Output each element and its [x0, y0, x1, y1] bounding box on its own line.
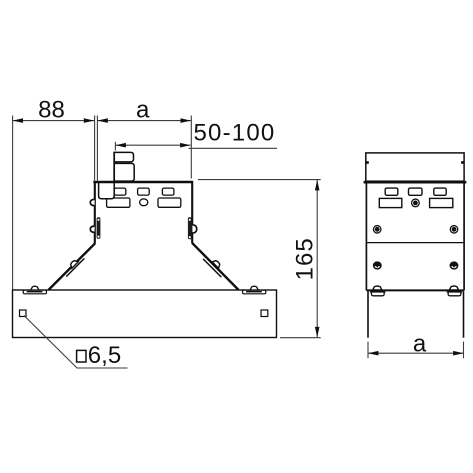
- center hole ellipse: [140, 199, 148, 206]
- left arm hinge strip: [66, 258, 84, 276]
- slot row1 right: [162, 188, 174, 195]
- side view foot tab right: [447, 286, 463, 296]
- dimension 88: left extension line: [12, 116, 14, 290]
- square hole left 6,5: [20, 310, 27, 317]
- side view slot row2 left: [379, 198, 402, 207]
- left arm hinge dome: [69, 259, 78, 268]
- side view slot row2 right: [430, 198, 453, 207]
- right edge knuckle bump: [192, 225, 196, 233]
- side view top box: [366, 153, 464, 181]
- left edge knuckle bump upper: [90, 199, 94, 205]
- dimension 88: dimension line: [13, 120, 95, 122]
- dimension a (side view): right extension tick: [463, 342, 465, 359]
- center clip left bar: [113, 152, 115, 182]
- right foot tab: [243, 286, 266, 294]
- side view rivet left: [373, 225, 382, 234]
- dimension 50-100: dimension line: [116, 144, 191, 146]
- dimension 165: bottom extension line: [280, 337, 321, 339]
- right arm hinge dome: [212, 259, 221, 268]
- side view slot row1 left: [385, 188, 398, 195]
- dimension a: left extension line: [96, 116, 98, 181]
- center clip upper segment: [114, 152, 133, 162]
- side view foot tab left: [370, 286, 386, 296]
- dimension 165: top extension line: [198, 179, 321, 181]
- body left edge: [94, 181, 96, 244]
- slot row1 center: [138, 188, 150, 195]
- side view center screw ring: [411, 198, 420, 207]
- square hole right 6,5: [261, 310, 268, 317]
- svg-text:6,5: 6,5: [88, 342, 121, 369]
- body right edge: [191, 181, 193, 243]
- base plate: [13, 290, 277, 338]
- dimension 50-100: reference shelf line: [189, 147, 278, 149]
- side view body right edge: [463, 183, 465, 290]
- left angled arm: [49, 243, 96, 290]
- dimension 165: arrows: [315, 180, 320, 337]
- side view top box left nub: [365, 161, 368, 164]
- left foot tab: [23, 286, 46, 294]
- side view bottom divider thick line: [366, 289, 464, 291]
- dimension a (front view): dimension line: [97, 120, 190, 122]
- side view dome rivet right: [450, 262, 458, 269]
- side view top box right nub: [461, 161, 464, 164]
- label square symbol: [77, 350, 86, 362]
- side view dome rivet left: [373, 262, 381, 269]
- svg-text:165: 165: [291, 237, 318, 280]
- left hanging hook: [99, 182, 115, 199]
- dimension a: right extension line: [190, 116, 192, 179]
- svg-text:88: 88: [38, 97, 65, 124]
- side view rivet right: [450, 225, 459, 234]
- slot row2 left: [107, 198, 130, 207]
- left edge knuckle bump lower: [90, 226, 94, 232]
- leader line for square hole callout: [24, 316, 128, 369]
- dimension 50-100: arrows: [116, 143, 191, 148]
- svg-text:a: a: [413, 331, 427, 358]
- dimension 50-100: extension tick: [114, 142, 116, 151]
- slot row1 left: [114, 188, 126, 195]
- dimension a (side view): arrows: [368, 351, 464, 356]
- side view body left edge: [365, 183, 367, 290]
- side view slot row1 right: [434, 188, 446, 195]
- dimension 88: right extension line: [94, 116, 96, 181]
- side view top face thick line: [364, 181, 467, 184]
- dimension a (side view): dimension line: [368, 352, 464, 354]
- right edge hinge strip: [188, 217, 192, 239]
- right angled arm: [192, 243, 239, 290]
- side view mid divider line: [366, 242, 464, 244]
- side view slot row1 center: [409, 188, 423, 195]
- dimension 165: dimension line: [316, 180, 318, 337]
- body top face line: [93, 181, 192, 184]
- slot row2 right: [158, 198, 181, 207]
- center clip lower segment: [114, 163, 134, 181]
- dimension a: arrows: [97, 118, 190, 123]
- dimension 88: arrows: [13, 118, 95, 123]
- svg-text:50-100: 50-100: [194, 120, 276, 147]
- left edge hinge strip: [97, 217, 101, 239]
- side view lower box right edge: [463, 291, 465, 337]
- dimension a (side view): left extension tick: [367, 342, 369, 359]
- right arm hinge strip: [203, 259, 221, 277]
- side view lower box left edge: [367, 291, 369, 337]
- svg-text:a: a: [136, 97, 150, 124]
